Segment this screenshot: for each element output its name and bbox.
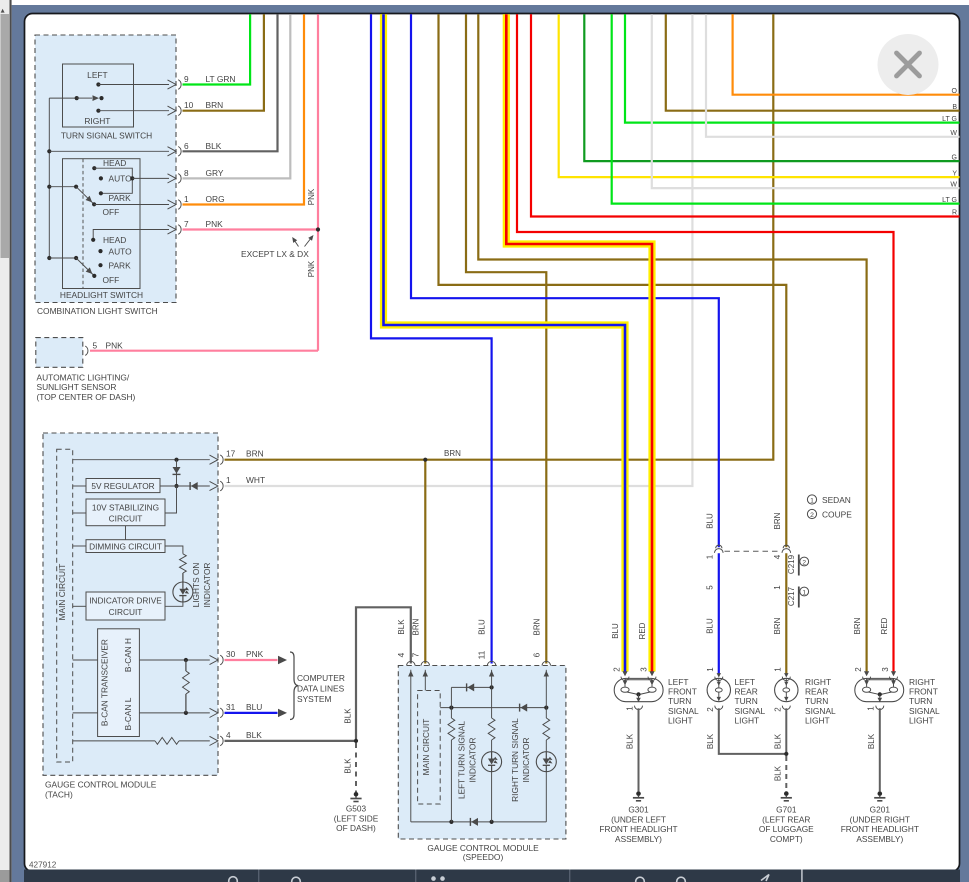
svg-text:17: 17: [226, 449, 236, 459]
svg-text:G701: G701: [776, 805, 797, 815]
pin 10 BRN connector: [168, 106, 177, 115]
wire dimming to lights-on indicator: [165, 546, 183, 554]
svg-text:G: G: [952, 154, 957, 161]
svg-text:HEAD: HEAD: [103, 158, 126, 168]
svg-text:TURN SIGNAL SWITCH: TURN SIGNAL SWITCH: [61, 130, 152, 140]
svg-text:(UNDER RIGHT: (UNDER RIGHT: [850, 814, 910, 824]
indicator drive circuit box: [86, 592, 165, 620]
svg-text:W: W: [950, 130, 957, 137]
svg-text:LEFT: LEFT: [735, 677, 755, 687]
speedo diode row upper: [451, 686, 491, 688]
wire BLK right rear down: [785, 708, 787, 752]
svg-text:2: 2: [774, 707, 783, 712]
pin 6 BLK connector: [168, 147, 177, 156]
svg-text:2: 2: [802, 559, 806, 566]
svg-text:B-CAN H: B-CAN H: [123, 638, 133, 672]
left turn signal indicator branch: [491, 670, 493, 718]
right turn signal indicator branch: [545, 670, 547, 718]
toolbar dividers: [258, 870, 259, 882]
svg-text:PARK: PARK: [109, 193, 132, 203]
svg-text:LIGHT: LIGHT: [668, 716, 693, 726]
svg-text:(TOP CENTER OF DASH): (TOP CENTER OF DASH): [37, 392, 136, 402]
wire BLU tach pin 31 to data lines: [225, 712, 278, 714]
wire ORG exits right edge label O: [733, 14, 960, 94]
svg-text:SIGNAL: SIGNAL: [735, 706, 766, 716]
wire WHT exits right edge upper: [706, 14, 960, 137]
wire PNK vertical from top to sunlight sensor: [317, 14, 319, 350]
sensor pin 5 connector: [85, 346, 88, 355]
headlight switch divider: [82, 159, 84, 289]
svg-text:BRN: BRN: [532, 618, 541, 635]
computer data lines brace: [290, 652, 298, 720]
wire BRN top to speedo pin 6: [466, 14, 546, 663]
wire RED exits right edge label R: [531, 14, 960, 216]
connector break BLU: [716, 545, 722, 548]
wire to pin 6: [49, 150, 169, 152]
svg-text:COUPE: COUPE: [822, 510, 852, 520]
svg-text:SEDAN: SEDAN: [822, 495, 851, 505]
svg-text:BRN: BRN: [773, 617, 782, 634]
svg-text:(LEFT SIDE: (LEFT SIDE: [334, 813, 379, 823]
upper PARK contact: [99, 191, 103, 195]
wire BLU highlighted to left front turn signal light pin 2: [384, 14, 626, 671]
node bracket junction: [130, 176, 134, 180]
svg-text:B-CAN L: B-CAN L: [123, 697, 133, 730]
ground G701: [784, 791, 789, 796]
wire BLK dashed to G701: [785, 756, 787, 791]
wire RED highlighted to left front turn signal light pin 3: [506, 14, 652, 671]
svg-text:LT GRN: LT GRN: [206, 74, 236, 84]
speedo pin 4 BLK connector: [407, 661, 415, 665]
svg-text:5: 5: [93, 340, 98, 350]
ground G201: [878, 791, 883, 796]
svg-text:G301: G301: [628, 805, 649, 815]
svg-text:(UNDER LEFT: (UNDER LEFT: [611, 814, 666, 824]
svg-text:W: W: [950, 181, 957, 188]
svg-text:TURN: TURN: [805, 696, 828, 706]
svg-text:(SPEEDO): (SPEEDO): [463, 852, 504, 862]
ground G301: [636, 791, 641, 796]
svg-text:HEAD: HEAD: [103, 235, 126, 245]
svg-text:R: R: [952, 210, 957, 217]
bottom toolbar: [24, 870, 960, 882]
svg-text:OF DASH): OF DASH): [336, 823, 376, 833]
svg-text:Y: Y: [952, 170, 957, 177]
svg-text:1: 1: [184, 194, 189, 204]
tach pin 17 internal wire: [73, 459, 210, 461]
svg-text:LIGHT: LIGHT: [909, 716, 934, 726]
svg-text:EXCEPT LX & DX: EXCEPT LX & DX: [241, 249, 309, 259]
svg-text:BRN: BRN: [411, 618, 420, 635]
lower wiper: [49, 257, 76, 259]
svg-text:FRONT HEADLIGHT: FRONT HEADLIGHT: [599, 824, 677, 834]
svg-text:BRN: BRN: [246, 449, 264, 459]
wire BLK tach pin 4 to G503 junction: [225, 740, 357, 742]
svg-text:PARK: PARK: [109, 261, 132, 271]
svg-text:ASSEMBLY): ASSEMBLY): [856, 834, 903, 844]
svg-text:4: 4: [226, 730, 231, 740]
svg-text:BLK: BLK: [343, 708, 352, 724]
wire RED top to right front turn signal light pin 3: [517, 14, 894, 672]
wire BLK left front turn signal light: [638, 708, 640, 791]
toolbar icon fragments: [229, 877, 238, 882]
svg-text:30: 30: [226, 649, 236, 659]
svg-text:4: 4: [773, 554, 782, 559]
wire WHT exits right edge lower: [652, 14, 960, 188]
speedo main circuit box: [418, 691, 441, 805]
upper contact bracket: [94, 168, 132, 193]
svg-text:RIGHT: RIGHT: [84, 116, 110, 126]
svg-text:OF LUGGAGE: OF LUGGAGE: [759, 824, 814, 834]
gauge control module tach box: [43, 433, 218, 775]
wire BRN branch down to speedo pin 7: [424, 460, 426, 664]
svg-text:INDICATOR: INDICATOR: [468, 738, 478, 783]
wire LT GRN exits right edge lower: [612, 14, 960, 203]
wire BLK junction up and over to speedo pin 4: [356, 607, 411, 741]
lower HEAD contact: [91, 238, 95, 242]
wire BLK dashed to G503: [355, 743, 357, 792]
B-CAN transceiver box: [98, 629, 140, 737]
svg-text:BRN: BRN: [206, 100, 224, 110]
window divider line: [10, 0, 12, 882]
tach pin 1 internal wire with diode D2: [160, 485, 210, 487]
svg-text:INDICATOR: INDICATOR: [521, 738, 531, 783]
svg-text:BLK: BLK: [706, 733, 715, 749]
speedo pin 6 BRN connector: [542, 661, 550, 665]
wire BRN tach pin 17 net: riser and horizontal with branch to speedo pin 7: [225, 14, 774, 459]
diode D1 tach: [176, 460, 178, 486]
wire LED to indicator drive circuit: [165, 602, 183, 606]
turn signal wiper: [49, 97, 76, 99]
svg-text:1: 1: [226, 475, 231, 485]
svg-text:B-CAN TRANSCEIVER: B-CAN TRANSCEIVER: [100, 639, 110, 726]
svg-text:PNK: PNK: [206, 219, 224, 229]
speedo pin 4 internal branch: [410, 670, 412, 822]
svg-text:LT G: LT G: [942, 116, 957, 123]
5V regulator box: [86, 479, 160, 493]
svg-text:HEADLIGHT SWITCH: HEADLIGHT SWITCH: [60, 290, 143, 300]
svg-text:FRONT: FRONT: [909, 687, 938, 697]
lower AUTO contact: [98, 249, 102, 253]
svg-text:RIGHT: RIGHT: [909, 677, 935, 687]
svg-text:11: 11: [477, 650, 487, 659]
svg-text:2: 2: [612, 667, 621, 672]
svg-text:427912: 427912: [29, 860, 57, 869]
left resistor branch: [450, 687, 452, 718]
svg-text:G201: G201: [870, 805, 891, 815]
svg-text:LIGHT: LIGHT: [735, 716, 760, 726]
svg-text:ORG: ORG: [206, 194, 225, 204]
svg-text:DIMMING CIRCUIT: DIMMING CIRCUIT: [89, 541, 162, 551]
svg-text:RIGHT: RIGHT: [805, 677, 831, 687]
LED right turn signal indicator: [536, 752, 556, 772]
svg-text:BLK: BLK: [206, 141, 222, 151]
right rear turn signal light bulb: [775, 678, 798, 701]
node G503 junction: [354, 739, 358, 743]
svg-text:COMPUTER: COMPUTER: [297, 673, 345, 683]
svg-text:BLK: BLK: [343, 758, 352, 774]
LED left turn signal indicator: [482, 752, 502, 772]
speedo pin 7 internal branch: [424, 670, 426, 691]
svg-text:SIGNAL: SIGNAL: [668, 706, 699, 716]
scrollbar thumb: [1, 14, 10, 258]
right front turn signal light bulb: [855, 678, 904, 701]
LED lights on indicator: [182, 573, 184, 582]
svg-text:C217: C217: [787, 586, 796, 606]
svg-text:O: O: [952, 88, 958, 95]
wire BRN top to right rear turn signal light via C219/C217: [439, 14, 787, 547]
combination light switch box: [35, 35, 176, 303]
svg-text:MAIN CIRCUIT: MAIN CIRCUIT: [57, 564, 67, 621]
wire 10V to dimming: [125, 526, 127, 540]
svg-text:1: 1: [867, 706, 876, 711]
connector dashed link: [725, 550, 782, 552]
wire BLK combination pin 6 riser: [183, 14, 278, 151]
svg-text:OFF: OFF: [103, 207, 120, 217]
svg-text:2: 2: [810, 512, 814, 519]
wire BRN exits right edge label B: [666, 14, 960, 110]
dimming circuit box: [86, 540, 165, 553]
wire BLU top to speedo pin 11: [371, 14, 492, 663]
ground G503: [354, 792, 359, 797]
contact RIGHT: [96, 109, 100, 113]
wire GRY combination pin 8 riser: [183, 14, 291, 178]
svg-text:5: 5: [705, 585, 714, 590]
svg-text:TURN: TURN: [668, 696, 691, 706]
svg-text:BLK: BLK: [773, 765, 782, 781]
svg-text:1: 1: [802, 589, 806, 596]
svg-text:GRY: GRY: [206, 168, 224, 178]
svg-text:LEFT: LEFT: [87, 70, 107, 80]
svg-text:AUTO: AUTO: [109, 247, 133, 257]
svg-text:RED: RED: [638, 622, 647, 639]
lower PARK contact: [98, 263, 102, 267]
tach pin 1 WHT connector: [210, 481, 219, 490]
svg-text:WHT: WHT: [246, 475, 265, 485]
svg-text:BLK: BLK: [626, 733, 635, 749]
svg-text:6: 6: [531, 652, 541, 657]
svg-text:1: 1: [626, 706, 635, 711]
wire BRN top to right front turn signal light pin 2: [478, 14, 866, 672]
svg-text:COMPT): COMPT): [770, 834, 803, 844]
svg-text:LEFT TURN SIGNAL: LEFT TURN SIGNAL: [457, 721, 467, 799]
svg-text:10V STABILIZING: 10V STABILIZING: [92, 503, 159, 513]
scrollbar track: [0, 0, 10, 882]
svg-text:4: 4: [396, 652, 406, 657]
svg-text:SYSTEM: SYSTEM: [297, 694, 331, 704]
node junction BRN pin17/pin7: [423, 458, 427, 462]
svg-text:RED: RED: [880, 617, 889, 634]
upper HEAD contact: [92, 166, 96, 170]
wire BLK left rear to junction: [719, 708, 785, 754]
wire BLU top to left rear turn signal light via connector: [411, 14, 719, 547]
tach pin 31 internal wire: [73, 712, 98, 714]
svg-text:2: 2: [706, 707, 715, 712]
svg-text:8: 8: [184, 168, 189, 178]
turn signal switch box: [63, 64, 134, 127]
speedo pin 11 BLU connector: [487, 661, 495, 665]
wire WHT from gauge control module (tach) pin 1 up to top edge: [225, 14, 693, 486]
connector break BRN: [783, 545, 789, 548]
10V stabilizing circuit box: [86, 499, 165, 526]
svg-text:BRN: BRN: [773, 512, 782, 529]
pin 9 LT GRN connector: [168, 80, 177, 89]
svg-text:LEFT: LEFT: [668, 677, 688, 687]
wire BRN combination pin 10 riser: [183, 14, 264, 110]
svg-text:FRONT HEADLIGHT: FRONT HEADLIGHT: [841, 824, 919, 834]
svg-text:INDICATOR DRIVE: INDICATOR DRIVE: [89, 596, 162, 606]
wire regulator riser to 10V box: [165, 486, 177, 513]
tach pin 17 BRN connector: [210, 455, 219, 464]
left front turn signal light bulb: [614, 678, 663, 701]
headlight switch box: [63, 159, 141, 289]
svg-text:LIGHTS ON: LIGHTS ON: [191, 563, 201, 608]
svg-text:BLK: BLK: [773, 733, 782, 749]
svg-text:1: 1: [706, 667, 715, 672]
pin 1 ORG connector: [168, 200, 177, 209]
svg-text:SUNLIGHT SENSOR: SUNLIGHT SENSOR: [37, 382, 117, 392]
gauge control module speedo box: [398, 666, 566, 840]
pin 8 GRY connector: [168, 174, 177, 183]
svg-text:CIRCUIT: CIRCUIT: [109, 514, 143, 524]
svg-text:(LEFT REAR: (LEFT REAR: [762, 814, 810, 824]
svg-text:1: 1: [705, 554, 714, 559]
left rear turn signal light bulb: [707, 678, 730, 701]
svg-text:PNK: PNK: [246, 649, 264, 659]
svg-text:FRONT: FRONT: [668, 687, 697, 697]
svg-text:OFF: OFF: [103, 275, 120, 285]
upper wiper: [49, 186, 76, 188]
svg-text:SIGNAL: SIGNAL: [805, 706, 836, 716]
svg-text:BRN: BRN: [444, 449, 461, 458]
svg-text:6: 6: [184, 141, 189, 151]
svg-text:BLU: BLU: [478, 619, 487, 635]
svg-text:PNK: PNK: [106, 340, 124, 350]
svg-text:5V REGULATOR: 5V REGULATOR: [91, 481, 154, 491]
lower section wire from pin 7: [93, 230, 169, 240]
resistor lights-on: [180, 554, 187, 573]
wire BLK right front turn signal light: [879, 708, 881, 791]
svg-text:ASSEMBLY): ASSEMBLY): [615, 834, 662, 844]
node diode junction top: [174, 458, 178, 462]
svg-text:INDICATOR: INDICATOR: [202, 563, 212, 608]
svg-text:BLK: BLK: [246, 730, 262, 740]
svg-text:DATA LINES: DATA LINES: [297, 684, 345, 694]
wire PNK combination pin 7: [183, 228, 319, 230]
svg-text:1: 1: [774, 667, 783, 672]
svg-text:SIGNAL: SIGNAL: [909, 706, 940, 716]
svg-text:BLU: BLU: [705, 513, 714, 529]
wire ORG combination pin 1 riser: [183, 14, 305, 204]
svg-text:MAIN CIRCUIT: MAIN CIRCUIT: [421, 719, 431, 776]
scrollbar bottom cap: [0, 870, 10, 882]
scrollbar up arrow: [1, 9, 5, 13]
tach pin 30 internal wire: [73, 659, 98, 661]
speedo diode row lower: [440, 707, 546, 709]
tach pin 31 BLU connector: [210, 708, 219, 717]
close button: [878, 34, 939, 95]
svg-text:9: 9: [184, 74, 189, 84]
speedo pin 7 BRN connector: [421, 661, 429, 665]
svg-text:2: 2: [854, 667, 863, 672]
legend sedan coupe: [807, 495, 816, 504]
speedo bottom rail with diode: [411, 821, 547, 823]
tach pin 4 BLK connector: [210, 736, 219, 745]
svg-text:COMBINATION LIGHT SWITCH: COMBINATION LIGHT SWITCH: [37, 306, 158, 316]
node BLK junction rear lights: [784, 752, 788, 756]
svg-text:REAR: REAR: [735, 687, 758, 697]
svg-text:31: 31: [226, 702, 236, 712]
wire PNK sunlight sensor pin 5: [90, 350, 318, 352]
svg-text:REAR: REAR: [805, 687, 828, 697]
svg-text:BLU: BLU: [611, 623, 620, 639]
svg-text:BRN: BRN: [853, 617, 862, 634]
wire LT GRN combination pin 9 riser: [183, 14, 251, 84]
svg-text:B: B: [952, 104, 957, 111]
svg-text:BLK: BLK: [397, 619, 406, 635]
wire GRN exits right edge label G: [584, 14, 959, 161]
svg-text:TURN: TURN: [909, 696, 932, 706]
svg-text:3: 3: [881, 667, 890, 672]
svg-text:PNK: PNK: [307, 188, 316, 205]
svg-text:BLU: BLU: [705, 618, 714, 634]
svg-text:7: 7: [410, 652, 420, 657]
node junction PNK: [316, 227, 320, 231]
tach main circuit box: [57, 449, 73, 762]
node diode junction bottom: [174, 484, 178, 488]
svg-text:3: 3: [639, 667, 648, 672]
svg-text:10: 10: [184, 100, 194, 110]
svg-text:(TACH): (TACH): [45, 790, 73, 800]
svg-text:AUTOMATIC LIGHTING/: AUTOMATIC LIGHTING/: [37, 373, 130, 383]
svg-text:1: 1: [773, 585, 782, 590]
svg-text:LIGHT: LIGHT: [805, 716, 830, 726]
svg-text:C219: C219: [787, 554, 796, 574]
automatic lighting sunlight sensor box: [36, 338, 83, 368]
svg-text:7: 7: [184, 219, 189, 229]
svg-text:1: 1: [810, 498, 814, 505]
switch bus wire: [48, 98, 50, 258]
wire LT GRN exits right edge upper: [625, 14, 960, 122]
svg-text:BLU: BLU: [246, 702, 262, 712]
svg-text:LT G: LT G: [942, 197, 957, 204]
wire PNK tach pin 30 to data lines: [225, 659, 278, 661]
svg-text:TURN: TURN: [735, 696, 758, 706]
svg-text:GAUGE CONTROL MODULE: GAUGE CONTROL MODULE: [45, 780, 157, 790]
pin 7 PNK connector: [168, 225, 177, 234]
svg-text:AUTO: AUTO: [109, 174, 133, 184]
tach pin 4 internal wire with resistor: [73, 740, 155, 742]
wire YEL exits right edge label Y: [559, 14, 960, 177]
svg-text:RIGHT TURN SIGNAL: RIGHT TURN SIGNAL: [510, 718, 520, 802]
svg-text:G503: G503: [346, 804, 367, 814]
resistor B-CAN: [185, 660, 187, 671]
contact LEFT: [96, 82, 100, 86]
tach pin 30 PNK connector: [210, 655, 219, 664]
upper AUTO contact: [99, 176, 103, 180]
svg-text:PNK: PNK: [307, 260, 316, 277]
svg-text:CIRCUIT: CIRCUIT: [109, 607, 143, 617]
svg-text:BLK: BLK: [867, 733, 876, 749]
